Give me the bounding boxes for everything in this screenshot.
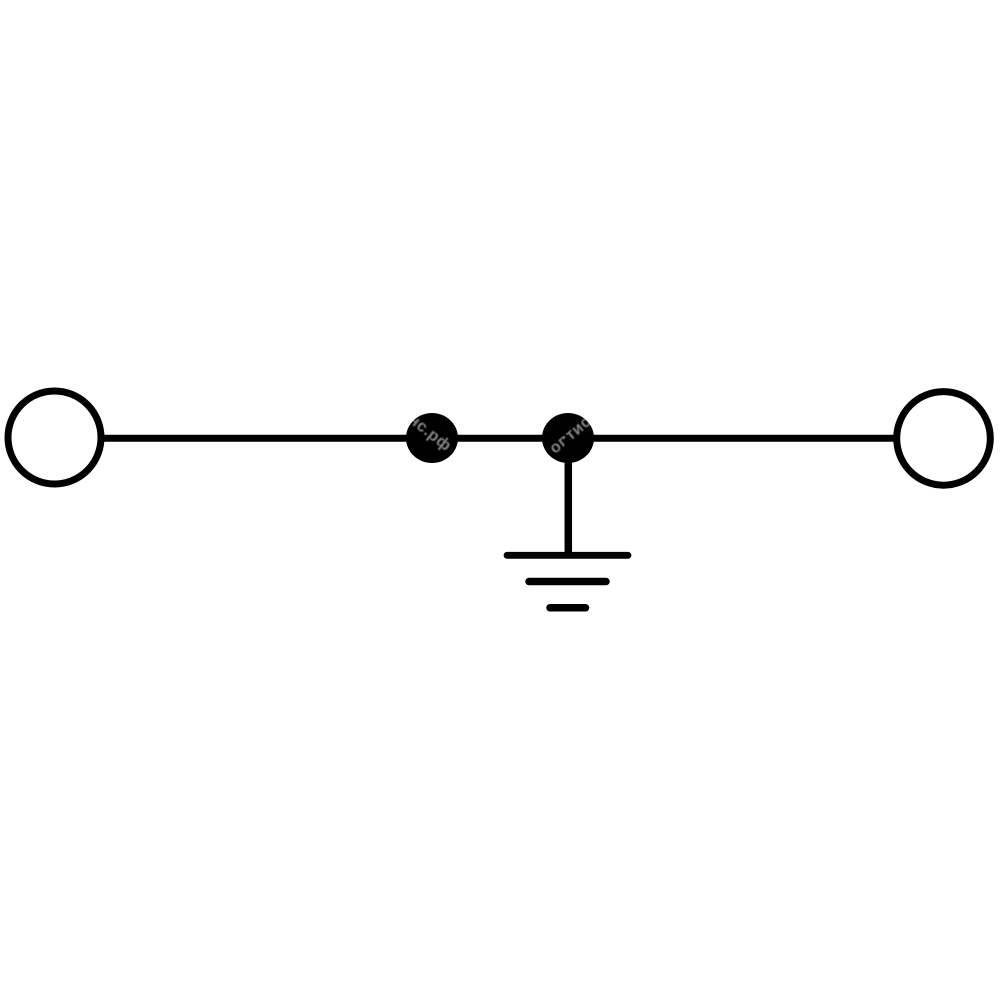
wire from terminal X1 to junction dot 1 <box>103 435 432 442</box>
junction dot 2 <box>538 413 595 465</box>
junction dot 1 <box>405 411 464 463</box>
wire from junction dot 2 to terminal X2 <box>568 435 896 442</box>
ground <box>507 555 628 608</box>
terminal X1 (left circle) <box>8 391 101 484</box>
terminal X2 (right circle) <box>897 392 991 486</box>
wire from junction dot 1 to junction dot 2 <box>432 435 568 442</box>
wire from junction dot 2 down to ground <box>565 438 573 555</box>
